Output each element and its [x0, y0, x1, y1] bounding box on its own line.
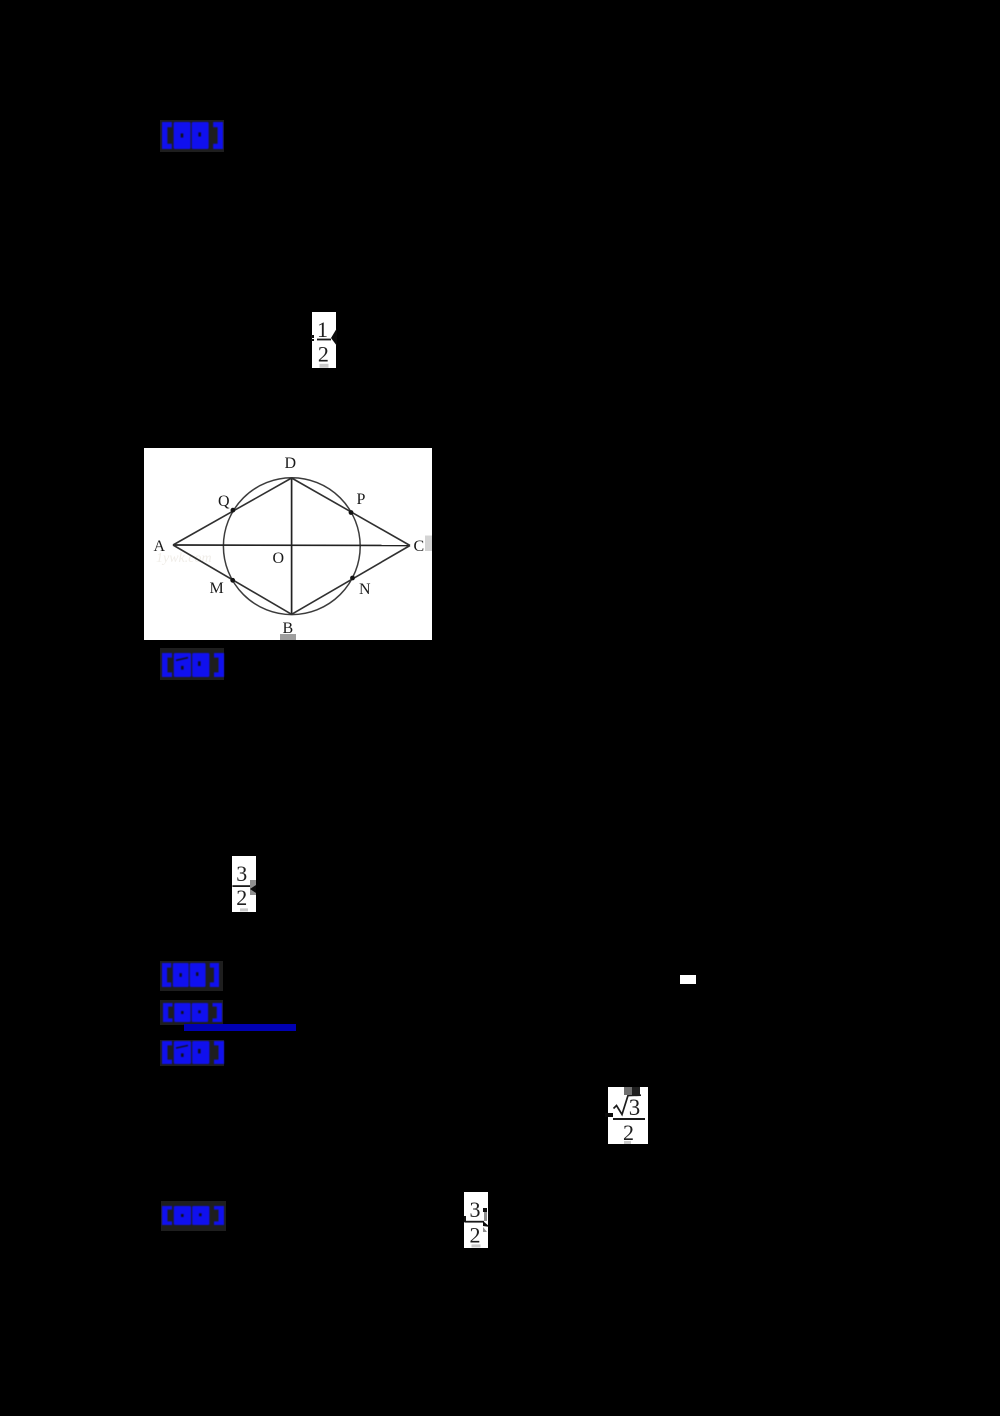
F3 dark blocks top right	[624, 1087, 632, 1095]
svg-text:C: C	[414, 538, 425, 555]
svg-text:2: 2	[470, 1223, 481, 1248]
svg-text:O: O	[273, 550, 285, 567]
svg-text:2: 2	[236, 885, 247, 910]
F1 cursor wedge right	[330, 328, 338, 347]
marker M5 blue CJK label blob	[162, 1041, 224, 1064]
gray selection handle right of C	[425, 536, 432, 552]
svg-text:N: N	[359, 581, 371, 598]
fraction F2 (3/2) white equation box	[232, 856, 256, 912]
side AD	[173, 478, 292, 545]
F2 gray resize handle	[250, 880, 256, 895]
marker M3 blue CJK label blob	[162, 963, 219, 987]
marker M3 highlight background	[160, 961, 223, 991]
F3 black dash left	[605, 1113, 613, 1118]
svg-text:2: 2	[318, 341, 329, 366]
svg-text:3: 3	[470, 1197, 481, 1222]
F2 black arrow in handle	[250, 885, 256, 894]
gray handle below B	[280, 634, 296, 640]
marker M5 highlight background	[160, 1040, 224, 1066]
side CB	[292, 546, 410, 615]
F4 gray block right	[484, 1212, 488, 1221]
F3 gray strip bottom	[624, 1141, 631, 1144]
point P dot	[349, 510, 354, 515]
circle O	[223, 478, 360, 615]
side DC	[292, 478, 410, 546]
white dash (blank answer box)	[680, 975, 696, 984]
point M dot	[230, 578, 235, 583]
side BA	[173, 545, 292, 614]
svg-text:3: 3	[236, 861, 247, 886]
F4 black dot left edge	[464, 1216, 466, 1222]
marker M2 blue CJK label blob	[162, 653, 224, 677]
marker M4 highlight background	[160, 1000, 223, 1025]
fraction F1 (1/2) white equation box	[312, 312, 336, 368]
M4 dark blue underline	[184, 1024, 296, 1031]
F1 colon mark left	[311, 335, 314, 338]
point Q dot	[231, 508, 236, 513]
marker M1 blue CJK label blob	[162, 122, 223, 149]
svg-text:M: M	[210, 580, 224, 597]
marker M6 blue CJK label blob	[162, 1206, 224, 1225]
F4 cursor arrow right	[483, 1221, 491, 1233]
marker M1 highlight background	[160, 120, 224, 152]
marker M6 highlight background	[161, 1201, 226, 1231]
fraction F3 (sqrt(3)/2) white equation box	[608, 1087, 648, 1144]
point N dot	[350, 576, 355, 581]
marker M2 highlight background	[160, 648, 224, 680]
svg-text:1: 1	[317, 317, 328, 342]
svg-text:Q: Q	[218, 493, 230, 510]
marker M4 blue CJK label blob	[163, 1003, 222, 1022]
fraction F4 (3/2) white equation box	[464, 1192, 488, 1248]
svg-text:A: A	[154, 538, 166, 555]
diagonal AC	[173, 544, 410, 547]
F4 black tick right of 3	[483, 1208, 487, 1212]
svg-text:P: P	[357, 491, 366, 508]
diagonal DB	[291, 478, 293, 614]
svg-text:D: D	[285, 455, 297, 472]
geometry figure white panel	[144, 448, 432, 640]
svg-text:3: 3	[629, 1095, 641, 1120]
